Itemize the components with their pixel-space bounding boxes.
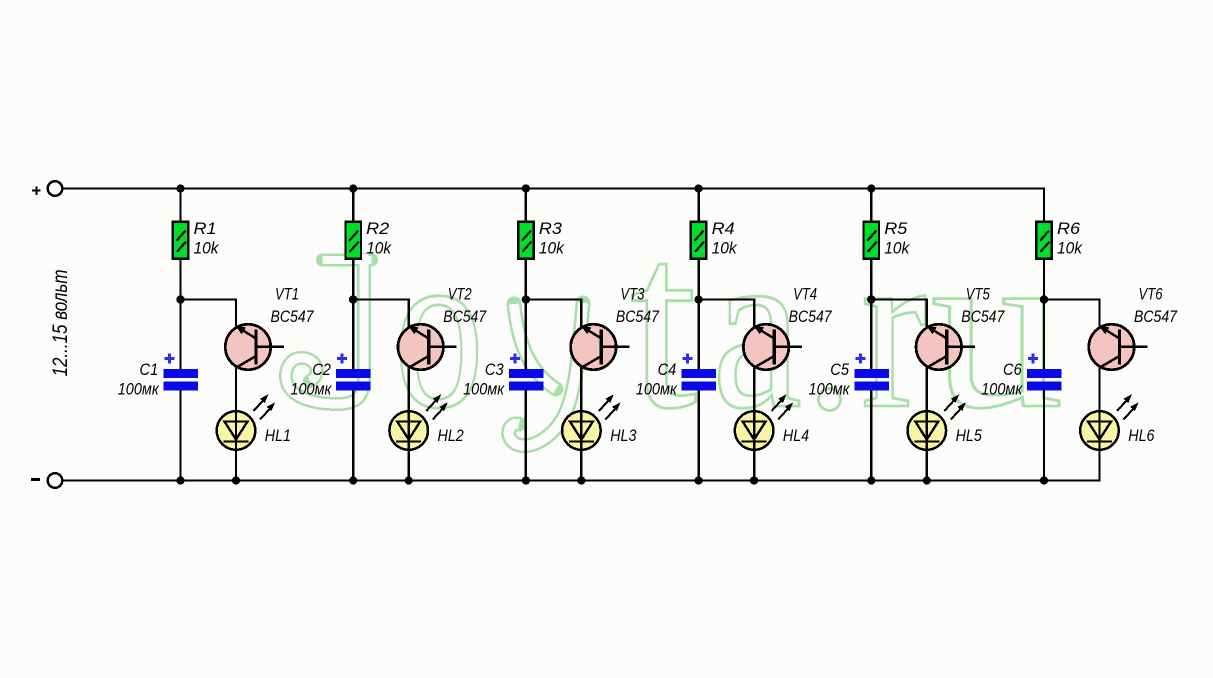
node: stage 1 junction R1/C1/VT1 — [176, 295, 184, 303]
wire: stage 1 main vertical, C1 to bottom rail — [179, 389, 181, 481]
svg-text:HL5: HL5 — [956, 426, 983, 445]
LED HL4 — [735, 394, 793, 451]
capacitor C1 — [164, 354, 199, 391]
node: stage 5 junction R5/C5/VT5 — [867, 295, 875, 303]
resistor R3 — [518, 222, 534, 259]
wire: VT2 emitter down to HL2 and bottom rail — [408, 360, 410, 481]
svg-text:C4: C4 — [658, 360, 677, 379]
svg-text:VT4: VT4 — [793, 284, 817, 303]
resistor R1 — [173, 222, 189, 259]
capacitor C3 — [509, 354, 544, 391]
svg-text:BC547: BC547 — [961, 307, 1004, 326]
svg-text:100мк: 100мк — [981, 379, 1023, 398]
svg-text:C1: C1 — [140, 360, 159, 379]
capacitor C5 — [854, 354, 889, 391]
wire: stage 3 main vertical, top rail to C3 — [525, 189, 527, 371]
svg-text:C2: C2 — [312, 360, 331, 379]
node: stage 1 C1 at bottom rail — [176, 476, 184, 484]
svg-text:100мк: 100мк — [290, 379, 332, 398]
transistor VT3 — [571, 324, 630, 370]
svg-text:100мк: 100мк — [809, 379, 851, 398]
node: stage 2 junction R2/C2/VT2 — [349, 295, 357, 303]
svg-text:C3: C3 — [485, 360, 504, 379]
transistor VT5 — [916, 324, 975, 370]
wire: junction to VT6 collector — [1044, 300, 1100, 328]
wire: stage 6 main vertical, C6 to bottom rail — [1043, 389, 1045, 481]
node: stage 1 HL1 at bottom rail — [232, 476, 240, 484]
node: stage 5 HL5 at bottom rail — [923, 476, 931, 484]
wire: junction to VT1 collector — [181, 300, 237, 328]
svg-text:VT1: VT1 — [275, 284, 299, 303]
LED HL5 — [908, 394, 966, 451]
resistor R4 — [691, 222, 707, 259]
terminal: - input — [48, 473, 63, 488]
svg-text:HL4: HL4 — [783, 426, 809, 445]
svg-text:C5: C5 — [830, 360, 849, 379]
node: stage 3 junction R3/C3/VT3 — [522, 295, 530, 303]
svg-text:R5: R5 — [884, 219, 908, 238]
svg-text:BC547: BC547 — [271, 307, 314, 326]
LED HL3 — [562, 394, 620, 451]
svg-text:HL3: HL3 — [610, 426, 637, 445]
node: stage 6 junction R6/C6/VT6 — [1040, 295, 1048, 303]
node: stage 2 C2 at bottom rail — [349, 476, 357, 484]
transistor VT2 — [398, 324, 457, 370]
wire: stage 4 main vertical, top rail to C4 — [697, 189, 699, 371]
svg-text:HL6: HL6 — [1128, 426, 1155, 445]
node: stage 5 C5 at bottom rail — [867, 476, 875, 484]
svg-text:10k: 10k — [366, 239, 392, 258]
wire: junction to VT2 collector — [353, 300, 409, 328]
svg-text:R2: R2 — [366, 219, 390, 238]
svg-text:10k: 10k — [539, 239, 565, 258]
wire: stage 1 main vertical, top rail to C1 — [179, 189, 181, 371]
svg-text:R6: R6 — [1057, 219, 1081, 238]
watermark Joyta.ru (light green outline text behind schematic) — [286, 181, 1064, 461]
svg-text:VT5: VT5 — [966, 284, 990, 303]
node: stage 4 junction on top rail — [695, 184, 703, 192]
wire: stage 2 main vertical, top rail to C2 — [352, 189, 354, 371]
label + — [32, 187, 40, 195]
svg-text:VT6: VT6 — [1139, 284, 1163, 303]
node: stage 2 HL2 at bottom rail — [405, 476, 413, 484]
wire: stage 5 main vertical, C5 to bottom rail — [870, 389, 872, 481]
node: stage 4 HL4 at bottom rail — [750, 476, 758, 484]
node: stage 3 HL3 at bottom rail — [577, 476, 585, 484]
svg-text:10k: 10k — [884, 239, 910, 258]
resistor R6 — [1036, 222, 1052, 259]
resistor R5 — [864, 222, 880, 259]
wire: stage 2 main vertical, C2 to bottom rail — [352, 389, 354, 481]
capacitor C6 — [1027, 354, 1062, 391]
wire: stage 4 main vertical, C4 to bottom rail — [697, 389, 699, 481]
wire: VT4 emitter down to HL4 and bottom rail — [753, 360, 755, 481]
svg-text:R4: R4 — [712, 219, 735, 238]
svg-text:BC547: BC547 — [616, 307, 659, 326]
LED HL1 — [217, 394, 275, 451]
svg-text:100мк: 100мк — [463, 379, 505, 398]
node: stage 2 junction on top rail — [349, 184, 357, 192]
resistor R2 — [345, 222, 361, 259]
node: stage 3 junction on top rail — [522, 184, 530, 192]
svg-text:10k: 10k — [712, 239, 738, 258]
svg-text:10k: 10k — [194, 239, 220, 258]
node: stage 5 junction on top rail — [867, 184, 875, 192]
node: stage 4 junction R4/C4/VT4 — [694, 295, 702, 303]
svg-text:R1: R1 — [194, 219, 217, 238]
wire: VT1 emitter down to HL1 and bottom rail — [235, 360, 237, 481]
node: stage 6 C6 at bottom rail — [1040, 476, 1048, 484]
svg-text:HL1: HL1 — [265, 426, 291, 445]
terminal: + input — [48, 181, 63, 196]
node: stage 4 C4 at bottom rail — [695, 476, 703, 484]
svg-text:VT2: VT2 — [448, 284, 472, 303]
svg-text:100мк: 100мк — [118, 379, 160, 398]
wire: junction to VT4 collector — [699, 300, 755, 328]
transistor VT1 — [225, 324, 284, 370]
svg-text:VT3: VT3 — [620, 284, 644, 303]
wire: stage 5 main vertical, top rail to C5 — [870, 189, 872, 371]
wire: stage 3 main vertical, C3 to bottom rail — [525, 389, 527, 481]
svg-text:12...15 вольт: 12...15 вольт — [48, 270, 72, 377]
wire: bottom supply rail (-) — [62, 479, 1100, 481]
node: stage 3 C3 at bottom rail — [522, 476, 530, 484]
node: stage 1 junction on top rail — [176, 184, 184, 192]
LED HL6 — [1080, 394, 1138, 451]
capacitor C4 — [682, 354, 717, 391]
wire: VT3 emitter down to HL3 and bottom rail — [580, 360, 582, 481]
wire: junction to VT5 collector — [871, 300, 927, 328]
label - — [31, 478, 40, 481]
svg-text:10k: 10k — [1057, 239, 1083, 258]
transistor VT6 — [1089, 324, 1148, 370]
wire: VT6 emitter down to HL6 and bottom rail — [1098, 360, 1100, 481]
svg-text:100мк: 100мк — [636, 379, 678, 398]
capacitor C2 — [336, 354, 371, 391]
svg-text:BC547: BC547 — [1134, 307, 1177, 326]
svg-text:C6: C6 — [1003, 360, 1022, 379]
wire: VT5 emitter down to HL5 and bottom rail — [926, 360, 928, 481]
wire: top supply rail (+) — [62, 187, 1045, 189]
transistor VT4 — [743, 324, 802, 370]
svg-text:HL2: HL2 — [438, 426, 465, 445]
wire: junction to VT3 collector — [526, 300, 582, 328]
LED HL2 — [389, 394, 447, 451]
wire: stage 6 main vertical, top rail to C6 — [1043, 189, 1045, 371]
svg-text:BC547: BC547 — [789, 307, 832, 326]
svg-text:R3: R3 — [539, 219, 563, 238]
svg-text:BC547: BC547 — [443, 307, 486, 326]
